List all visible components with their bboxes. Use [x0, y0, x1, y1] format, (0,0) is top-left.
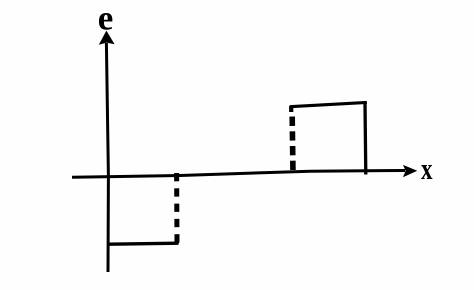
- negative pulse dotted left edge: [174, 173, 179, 244]
- negative pulse right end hook: [175, 240, 179, 244]
- positive pulse left corner nub: [289, 106, 293, 112]
- svg-text:x: x: [421, 151, 433, 186]
- svg-text:e: e: [98, 0, 114, 37]
- positive pulse right edge: [363, 103, 367, 175]
- axis x arrowhead: [403, 165, 417, 177]
- axis x (horizontal axis shaft): [72, 171, 405, 178]
- positive pulse top segment: [290, 102, 367, 106]
- negative pulse bottom segment: [109, 243, 179, 244]
- axis e (vertical axis shaft): [106, 43, 108, 272]
- axis e arrowhead: [99, 31, 115, 45]
- positive pulse dotted left edge: [289, 117, 295, 174]
